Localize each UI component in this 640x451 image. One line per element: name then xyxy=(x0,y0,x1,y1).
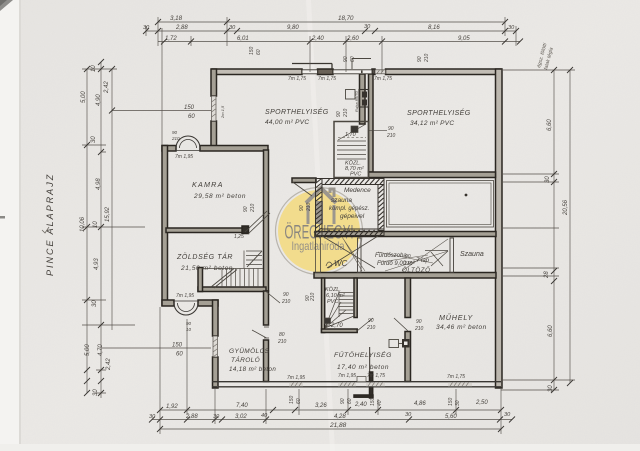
svg-text:60: 60 xyxy=(296,398,302,404)
svg-text:90: 90 xyxy=(343,56,349,62)
window top-1 white box xyxy=(302,70,318,74)
oltozo door mark xyxy=(425,251,448,267)
corridor door label rotated xyxy=(305,292,316,302)
svg-text:SPORTHELYISÉG: SPORTHELYISÉG xyxy=(265,107,329,116)
svg-text:5,60: 5,60 xyxy=(445,414,457,420)
svg-text:10: 10 xyxy=(93,221,99,228)
svg-text:90: 90 xyxy=(416,319,422,325)
kamra left wall xyxy=(162,146,168,306)
svg-text:90: 90 xyxy=(299,205,305,211)
svg-text:210: 210 xyxy=(281,299,291,305)
furdo diagonal correction lines xyxy=(342,237,448,271)
svg-text:2m 1,5: 2m 1,5 xyxy=(220,105,225,119)
boiler box xyxy=(346,90,356,100)
svg-text:7m 1,75: 7m 1,75 xyxy=(374,76,392,82)
paper left white edge xyxy=(0,0,19,451)
svg-text:30: 30 xyxy=(213,414,220,420)
medence top hatched wall xyxy=(322,179,384,185)
sport-left bottom wall H5 xyxy=(292,178,316,183)
svg-text:2,88: 2,88 xyxy=(175,25,188,31)
svg-text:30: 30 xyxy=(455,400,461,406)
svg-text:150: 150 xyxy=(448,397,454,406)
svg-text:60: 60 xyxy=(347,398,353,404)
svg-text:FŰTŐHELYISÉG: FŰTŐHELYISÉG xyxy=(334,350,392,359)
svg-text:210: 210 xyxy=(171,136,180,141)
svg-text:3,18: 3,18 xyxy=(170,15,183,22)
svg-text:210: 210 xyxy=(277,339,287,345)
svg-text:WC: WC xyxy=(334,259,348,268)
right notes scribble xyxy=(536,42,555,71)
svg-text:ZÖLDSÉG TÁR: ZÖLDSÉG TÁR xyxy=(176,252,233,261)
svg-text:gépeivel: gépeivel xyxy=(340,213,365,220)
svg-text:Szauna: Szauna xyxy=(460,251,484,258)
svg-text:1,25: 1,25 xyxy=(234,234,244,240)
svg-text:PVC: PVC xyxy=(327,299,338,305)
furdo band bottom wall xyxy=(314,273,496,279)
right chains xyxy=(553,70,555,390)
svg-text:90: 90 xyxy=(283,292,289,298)
svg-text:150: 150 xyxy=(172,343,183,349)
bottom ticks xyxy=(149,407,515,432)
medence bottom hatched wall xyxy=(322,229,384,236)
left chains xyxy=(86,69,88,393)
bottom door threshold box xyxy=(357,377,366,382)
kozl-lower west wall xyxy=(322,278,325,333)
kamra divider wall xyxy=(166,228,243,233)
svg-text:210: 210 xyxy=(310,292,316,302)
svg-text:60: 60 xyxy=(176,352,183,358)
window dim divider lines xyxy=(369,130,387,132)
svg-text:30: 30 xyxy=(92,300,98,307)
svg-text:1,92: 1,92 xyxy=(166,404,178,410)
window left-upper 150/60 xyxy=(212,96,217,121)
window left-lower 150/60 xyxy=(213,336,218,357)
bottom window 3 hatch xyxy=(366,382,385,386)
top dim row3 xyxy=(158,41,520,43)
svg-text:210: 210 xyxy=(386,133,396,139)
svg-text:1,72: 1,72 xyxy=(165,36,177,42)
svg-text:KAMRA: KAMRA xyxy=(192,180,224,189)
svg-text:7m 1,75: 7m 1,75 xyxy=(318,76,336,82)
svg-text:7m 1,75: 7m 1,75 xyxy=(447,374,465,380)
svg-text:90: 90 xyxy=(186,321,192,326)
svg-text:Medence: Medence xyxy=(344,187,371,194)
svg-text:90: 90 xyxy=(417,56,423,62)
svg-text:7 lap: 7 lap xyxy=(416,258,430,264)
svg-text:8,16: 8,16 xyxy=(428,25,440,31)
right outer wall xyxy=(496,69,503,388)
sport-left door swing xyxy=(292,182,312,197)
svg-text:4,93: 4,93 xyxy=(94,258,100,270)
svg-text:5,00: 5,00 xyxy=(81,91,87,103)
svg-text:4,86: 4,86 xyxy=(414,401,426,407)
svg-text:2,50: 2,50 xyxy=(475,400,488,406)
bottom window 2 hatch xyxy=(338,382,356,386)
check mark xyxy=(42,227,49,233)
planned pool room thin rectangle xyxy=(387,181,494,228)
svg-text:10: 10 xyxy=(186,327,192,332)
svg-text:1,70: 1,70 xyxy=(345,132,357,138)
svg-text:210: 210 xyxy=(424,53,430,63)
left labels (rotated) xyxy=(80,65,112,396)
svg-text:30: 30 xyxy=(405,412,412,418)
svg-text:KÖZL.: KÖZL. xyxy=(325,286,341,293)
futo/muhely divider wall V10 xyxy=(405,278,411,318)
kamra annex top wall xyxy=(162,146,176,152)
svg-text:80: 80 xyxy=(279,332,285,338)
svg-text:34,12 m² PVC: 34,12 m² PVC xyxy=(410,120,454,127)
window dim labels 150/60 xyxy=(172,105,195,358)
bottom dim row2 xyxy=(152,419,512,421)
window top-2 white box xyxy=(333,70,372,74)
center-west wall V6 xyxy=(264,150,269,291)
svg-text:90: 90 xyxy=(172,130,178,135)
svg-text:szauna: szauna xyxy=(331,197,352,204)
svg-text:210: 210 xyxy=(250,203,256,213)
svg-text:210: 210 xyxy=(403,261,413,267)
wc flourish xyxy=(326,262,332,268)
svg-text:29,58 m² beton: 29,58 m² beton xyxy=(193,193,246,200)
svg-text:90: 90 xyxy=(405,254,411,260)
gyumolcs east wall V8 xyxy=(264,291,269,325)
svg-text:6,60: 6,60 xyxy=(548,325,554,337)
arch door small labels xyxy=(171,130,192,332)
svg-text:7m 1,95: 7m 1,95 xyxy=(287,375,305,381)
svg-text:9,80: 9,80 xyxy=(287,25,299,31)
svg-text:ÖLTÖZŐ: ÖLTÖZŐ xyxy=(402,267,431,274)
svg-text:210: 210 xyxy=(414,326,424,332)
medence west hatched wall xyxy=(316,179,323,236)
lintel mark above window top-2 xyxy=(352,59,371,70)
watermark house icon xyxy=(306,188,336,224)
kamra top arch door xyxy=(175,136,201,151)
wall fixture pair xyxy=(359,90,369,108)
dimension tick marks xyxy=(84,19,573,432)
bottom wall double lines xyxy=(212,382,501,387)
svg-text:40: 40 xyxy=(261,413,268,419)
sport-right bottom wall xyxy=(369,172,496,178)
kozl-lower east wall xyxy=(354,278,357,318)
svg-text:5,00: 5,00 xyxy=(85,344,91,356)
svg-text:GYÜMÖLCS: GYÜMÖLCS xyxy=(229,347,270,355)
svg-text:PINCE ALAPRAJZ: PINCE ALAPRAJZ xyxy=(45,173,55,276)
svg-text:20,56: 20,56 xyxy=(563,199,569,216)
svg-text:21,88: 21,88 xyxy=(329,422,347,429)
svg-text:30: 30 xyxy=(545,176,551,183)
svg-text:9,05: 9,05 xyxy=(458,36,470,42)
main stair (west hall) xyxy=(202,251,263,289)
dot in pool room xyxy=(465,194,468,197)
svg-text:4,70: 4,70 xyxy=(98,344,104,356)
kozl-futo door xyxy=(357,318,373,331)
watermark yellow disc xyxy=(278,190,360,272)
top small stacked labels xyxy=(249,46,430,63)
top-center wall V9 xyxy=(360,74,366,124)
top-left corner smudge xyxy=(0,0,13,11)
svg-text:6,01: 6,01 xyxy=(237,36,249,42)
svg-text:2,60: 2,60 xyxy=(346,36,359,42)
divider pillar xyxy=(242,226,249,234)
oltozo/szauna divider thin xyxy=(450,238,454,273)
svg-text:28: 28 xyxy=(544,271,550,279)
bottom extension lines xyxy=(160,307,501,434)
svg-text:2,42: 2,42 xyxy=(106,358,112,371)
upper stair (kozl upper) xyxy=(334,122,369,178)
top dim row1 xyxy=(158,21,505,23)
wc/furdo divider thin xyxy=(358,238,362,273)
window top-3 hatch xyxy=(375,70,386,74)
svg-text:30: 30 xyxy=(149,414,156,420)
svg-text:40: 40 xyxy=(377,400,383,406)
medence door swing X xyxy=(322,236,378,268)
svg-text:SPORTHELYISÉG: SPORTHELYISÉG xyxy=(407,108,471,117)
svg-text:60: 60 xyxy=(350,56,356,62)
stair hall west wall V7 xyxy=(198,268,203,292)
svg-text:30: 30 xyxy=(504,412,511,418)
svg-text:Ruha 85/70: Ruha 85/70 xyxy=(354,91,359,112)
svg-text:210: 210 xyxy=(343,108,349,118)
svg-text:30: 30 xyxy=(143,25,150,31)
kamra door swing xyxy=(245,211,270,234)
svg-text:7,40: 7,40 xyxy=(236,403,248,409)
boiler fixture boxes on V10 xyxy=(389,340,399,348)
svg-text:15,92: 15,92 xyxy=(105,206,111,222)
svg-text:MŰHELY: MŰHELY xyxy=(439,313,473,322)
svg-text:2,40: 2,40 xyxy=(354,402,367,408)
svg-text:4,28: 4,28 xyxy=(334,414,346,420)
svg-text:60: 60 xyxy=(188,114,195,120)
svg-text:4,98: 4,98 xyxy=(96,178,102,190)
sport-right west wall xyxy=(369,74,374,172)
svg-text:10,06: 10,06 xyxy=(80,216,86,232)
upper-left outer wall xyxy=(211,69,217,96)
svg-text:kompl. gépész.: kompl. gépész. xyxy=(329,206,369,212)
svg-text:90: 90 xyxy=(368,318,374,324)
svg-text:150: 150 xyxy=(249,46,255,55)
left edge mark xyxy=(0,216,5,219)
svg-text:90: 90 xyxy=(336,111,342,117)
paper bottom light edge xyxy=(0,444,640,451)
left ticks xyxy=(84,59,115,396)
svg-text:TÁROLÓ: TÁROLÓ xyxy=(231,355,260,364)
muhely door swing xyxy=(394,318,408,331)
svg-text:210: 210 xyxy=(366,325,376,331)
svg-text:44,00 m² PVC: 44,00 m² PVC xyxy=(265,119,309,126)
svg-text:90: 90 xyxy=(388,126,394,132)
svg-text:150: 150 xyxy=(289,395,295,404)
svg-text:30: 30 xyxy=(508,25,515,31)
lower stair (kozl lower) xyxy=(325,291,355,328)
bottom window 4 hatch xyxy=(448,382,472,386)
svg-text:7m 1,75: 7m 1,75 xyxy=(367,373,385,379)
top wall segments xyxy=(212,69,302,75)
svg-text:10: 10 xyxy=(91,65,97,72)
svg-text:7m 1,95: 7m 1,95 xyxy=(176,293,194,299)
svg-text:3,26: 3,26 xyxy=(315,403,327,409)
svg-text:30: 30 xyxy=(364,24,371,30)
right labels (rotated) xyxy=(544,119,569,392)
right ticks xyxy=(551,67,573,393)
stair hall south wall H6 xyxy=(198,287,266,292)
interior door labels xyxy=(175,76,465,381)
svg-text:30: 30 xyxy=(91,136,97,143)
svg-text:17,40 m² beton: 17,40 m² beton xyxy=(337,364,389,371)
top ticks xyxy=(143,19,523,45)
svg-text:150: 150 xyxy=(184,105,195,111)
svg-text:18,70: 18,70 xyxy=(338,15,354,22)
svg-text:2,40: 2,40 xyxy=(311,36,324,42)
svg-text:PVC: PVC xyxy=(350,172,361,178)
bottom dim row3 xyxy=(160,428,501,430)
svg-text:-2,70: -2,70 xyxy=(329,323,343,329)
stair hall door swing xyxy=(266,292,280,304)
svg-text:4,90: 4,90 xyxy=(96,94,102,106)
svg-text:30: 30 xyxy=(93,389,99,396)
watermark outer ring xyxy=(276,188,363,275)
wc west thin wall xyxy=(316,236,321,273)
svg-text:34,46 m² beton: 34,46 m² beton xyxy=(436,324,487,331)
top dim row2 xyxy=(146,30,516,32)
svg-text:30: 30 xyxy=(548,385,554,392)
svg-text:90: 90 xyxy=(243,206,249,212)
svg-text:60: 60 xyxy=(256,49,262,55)
svg-text:7m 1,95: 7m 1,95 xyxy=(175,154,193,160)
svg-text:Fürdőszoba: Fürdőszoba xyxy=(375,253,407,259)
bottom window 1 hatch xyxy=(289,382,303,386)
top extension lines xyxy=(146,17,516,145)
zoldseg bottom wall xyxy=(162,300,174,306)
zoldseg bottom arch door xyxy=(173,301,199,315)
svg-text:30: 30 xyxy=(229,25,236,31)
external dim cross mark xyxy=(369,347,370,372)
lower-left outer wall xyxy=(213,300,219,336)
svg-text:6,60: 6,60 xyxy=(547,119,553,131)
bottom dim row1 xyxy=(160,409,501,411)
svg-text:90: 90 xyxy=(340,398,346,404)
kozl-lower bottom wall xyxy=(322,329,358,333)
furdo band top wall xyxy=(315,232,496,237)
svg-text:3,02: 3,02 xyxy=(235,414,247,420)
svg-text:14,18 m² beton: 14,18 m² beton xyxy=(229,366,276,373)
svg-text:2,42: 2,42 xyxy=(104,81,110,94)
svg-text:7m 1,95: 7m 1,95 xyxy=(338,373,356,379)
medence east hatched wall xyxy=(378,185,384,231)
svg-text:21,50 m² beton: 21,50 m² beton xyxy=(180,265,233,272)
bottom small stacked labels xyxy=(289,395,461,406)
lintel beam mark above window top-1 xyxy=(292,64,332,70)
svg-text:2,88: 2,88 xyxy=(185,414,198,420)
scan fold line xyxy=(306,0,335,451)
svg-text:7m 1,75: 7m 1,75 xyxy=(288,76,306,82)
svg-text:150: 150 xyxy=(370,397,376,406)
svg-text:Ingatlaniroda: Ingatlaniroda xyxy=(292,239,345,253)
svg-text:210: 210 xyxy=(306,202,312,212)
gyumolcs-futo door xyxy=(252,327,269,338)
